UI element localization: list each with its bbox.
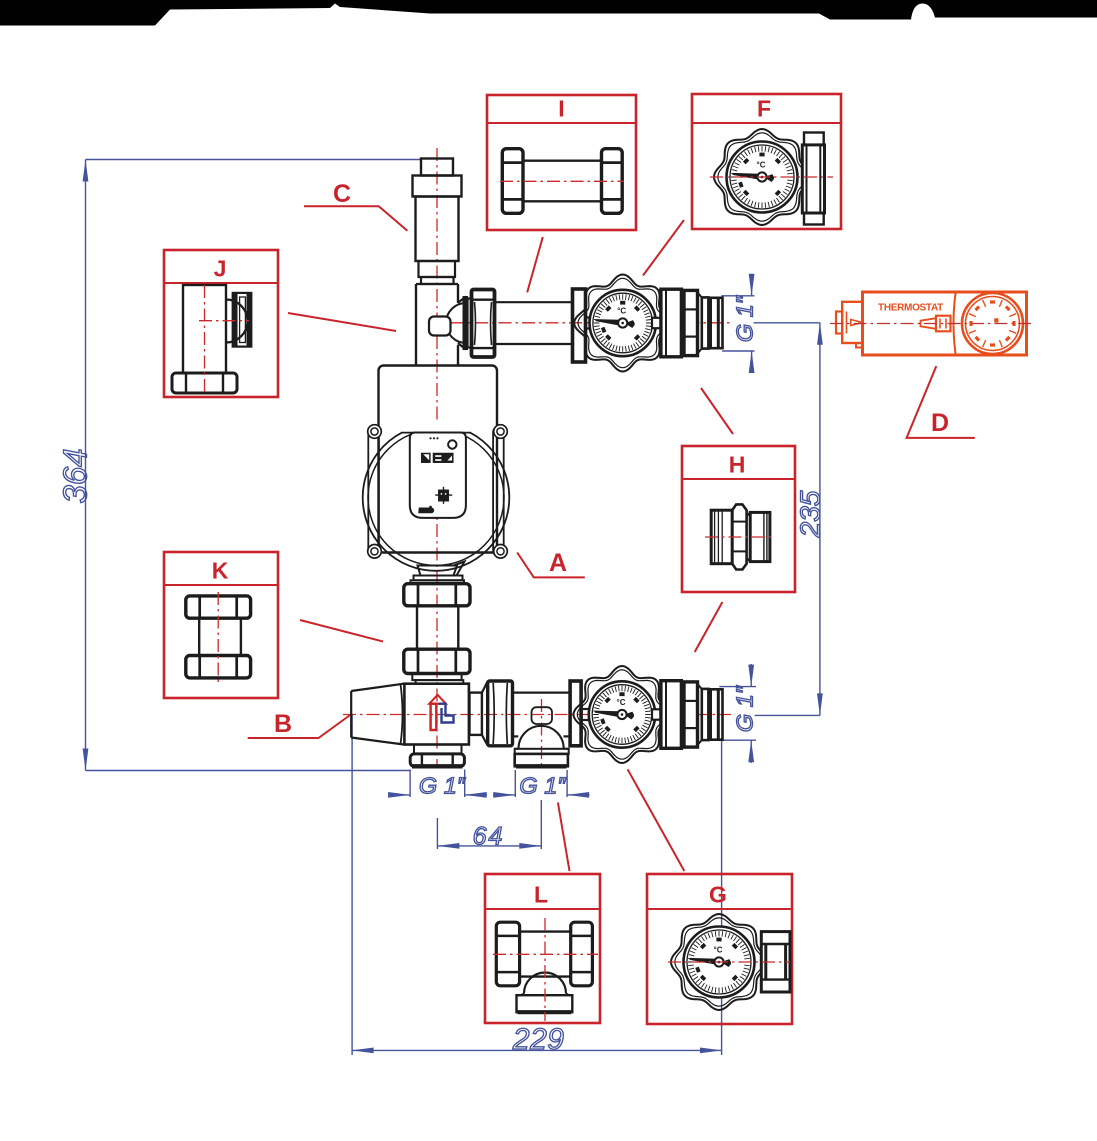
thermostat dial bbox=[962, 293, 1023, 354]
svg-text:°C: °C bbox=[617, 307, 626, 316]
air vent pipe C rings bbox=[419, 261, 456, 277]
dimension G1 under tee bbox=[514, 770, 516, 797]
svg-text:G: G bbox=[709, 882, 727, 908]
callout box J bbox=[164, 250, 278, 397]
box K fitting - union nut bbox=[186, 596, 251, 618]
callout box G bbox=[647, 874, 792, 1024]
svg-text:A: A bbox=[549, 549, 567, 577]
tee bottom branch bbox=[519, 726, 564, 749]
lower branch union nut bbox=[488, 681, 513, 746]
pump A body bbox=[379, 366, 498, 553]
callout box I bbox=[487, 95, 636, 230]
valve G right fitting bbox=[652, 709, 661, 719]
union nut below pump bbox=[404, 584, 470, 606]
box I fitting - straight union bbox=[502, 149, 523, 214]
svg-text:K: K bbox=[212, 558, 229, 584]
callout box H bbox=[682, 446, 795, 592]
pipe above pump bbox=[415, 284, 417, 365]
svg-text:C: C bbox=[333, 180, 351, 208]
svg-text:D: D bbox=[931, 409, 949, 437]
svg-text:THERMOSTAT: THERMOSTAT bbox=[878, 303, 943, 314]
leader J box bbox=[288, 313, 396, 331]
dimension 64 bbox=[436, 818, 438, 849]
svg-text:L: L bbox=[534, 882, 548, 908]
leader H box upper bbox=[701, 388, 733, 434]
pump motor circle bbox=[363, 424, 510, 571]
box G centerline bbox=[668, 961, 790, 963]
label C leader bbox=[304, 206, 407, 231]
centerline vertical main bbox=[436, 148, 438, 768]
thermostat centerline bbox=[830, 323, 1032, 325]
panel three dots bbox=[429, 437, 431, 439]
box H fitting - nipple bbox=[711, 510, 732, 564]
leader G box bbox=[628, 769, 685, 871]
box J centerlines bbox=[204, 285, 206, 395]
label A leader bbox=[517, 553, 585, 578]
callout box F bbox=[692, 94, 841, 229]
connecting pipe bbox=[416, 606, 418, 649]
svg-text:64: 64 bbox=[473, 823, 505, 851]
pump control panel bbox=[410, 433, 466, 518]
svg-text:I: I bbox=[558, 96, 564, 122]
lower branch collar right of valve B bbox=[470, 693, 482, 735]
panel wilo logo bbox=[418, 506, 434, 513]
leader K box bbox=[300, 620, 383, 642]
drain square on pipe bbox=[429, 317, 451, 336]
air vent pipe C collar bbox=[413, 176, 462, 197]
svg-text:H: H bbox=[729, 452, 746, 478]
box F centerline bbox=[710, 176, 833, 178]
label D leader bbox=[907, 366, 975, 438]
leader H box lower bbox=[695, 602, 723, 652]
svg-text:364: 364 bbox=[56, 448, 93, 503]
box F fitting - valve with thermometer bbox=[714, 129, 810, 225]
svg-text:235: 235 bbox=[795, 490, 826, 538]
box I centerline bbox=[500, 180, 624, 182]
valve F right fitting bbox=[652, 318, 661, 328]
thermostat left connector bbox=[836, 312, 842, 334]
valve B flow symbol bbox=[429, 695, 446, 704]
svg-text:°C: °C bbox=[757, 161, 766, 170]
dimension 364 left bbox=[86, 159, 422, 161]
leader L box bbox=[558, 803, 570, 872]
panel led circle bbox=[448, 440, 456, 448]
pump outlet flange bbox=[414, 576, 463, 581]
air vent pipe C body bbox=[416, 197, 459, 262]
svg-text:B: B bbox=[274, 710, 292, 738]
union nut above valve B bbox=[404, 649, 470, 673]
box K centerline bbox=[217, 592, 219, 682]
label B leader bbox=[248, 714, 352, 738]
leader F box bbox=[643, 220, 684, 276]
valve B bottom collar bbox=[414, 745, 462, 754]
panel display blocks bbox=[421, 453, 430, 463]
tee drain square bbox=[532, 707, 553, 724]
valve F left flange bbox=[573, 289, 586, 362]
svg-text:°C: °C bbox=[617, 698, 626, 707]
valve B body bbox=[404, 684, 469, 745]
valve F wheel and thermometer bbox=[574, 275, 671, 372]
air vent pipe C top stub bbox=[421, 159, 453, 176]
leader I box bbox=[527, 237, 543, 292]
panel setting knob bbox=[438, 490, 449, 501]
svg-text:G 1″: G 1″ bbox=[519, 773, 566, 799]
box G fitting - valve with thermometer bbox=[671, 914, 767, 1010]
upper branch tailpiece bell bbox=[458, 297, 466, 350]
svg-text:F: F bbox=[757, 96, 771, 122]
svg-text:G 1″: G 1″ bbox=[419, 773, 466, 799]
scan artifact black band top bbox=[0, 0, 1097, 26]
pump outlet funnel bbox=[418, 566, 458, 576]
callout box L bbox=[485, 874, 600, 1023]
svg-text:J: J bbox=[214, 256, 227, 282]
valve G left flange bbox=[570, 681, 581, 746]
dimension 235 right bbox=[754, 322, 820, 324]
lower branch pipe with tee bbox=[513, 691, 571, 693]
collar above valve B bbox=[412, 674, 461, 681]
svg-text:G 1″: G 1″ bbox=[732, 685, 758, 732]
box H centerline bbox=[705, 536, 775, 538]
dimension G1 under valve B bbox=[409, 770, 411, 798]
upper branch pipe I bbox=[495, 301, 574, 303]
valve B bottom nut bbox=[410, 754, 464, 766]
box L fitting - tee bbox=[496, 922, 519, 986]
valve G wheel and thermometer bbox=[574, 666, 671, 763]
thermostat body bbox=[863, 292, 1027, 355]
centerline upper branch bbox=[428, 322, 730, 324]
upper branch union nut bbox=[472, 290, 495, 358]
box L centerlines bbox=[493, 953, 598, 955]
svg-text:°C: °C bbox=[714, 946, 723, 955]
valve B knob cone bbox=[351, 684, 404, 745]
centerline tee vertical bbox=[541, 699, 543, 768]
pump corner screws bbox=[368, 425, 382, 439]
dimension G1 lower branch end bbox=[719, 686, 756, 688]
thermostat divider bbox=[954, 294, 956, 354]
svg-text:G 1″: G 1″ bbox=[732, 295, 758, 342]
dimension 229 bottom bbox=[351, 715, 353, 1056]
box J fitting - elbow with cap bbox=[183, 285, 226, 373]
callout box K bbox=[164, 552, 278, 698]
dimension G1 upper branch end bbox=[721, 295, 754, 297]
thermostat sensor symbol bbox=[921, 318, 937, 329]
centerline lower branch bbox=[343, 714, 731, 716]
pump ear straps bbox=[368, 427, 379, 556]
svg-text:229: 229 bbox=[512, 1023, 565, 1056]
